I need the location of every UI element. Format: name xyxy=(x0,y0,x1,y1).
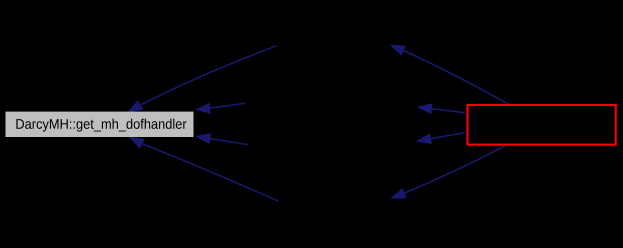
edge C: lower-middle caller -> DarcyMH::get_mh_dofhandler xyxy=(197,134,248,145)
edge A: top caller -> DarcyMH::get_mh_dofhandler xyxy=(129,46,277,112)
edge E: red truncated node -> top caller xyxy=(391,45,509,104)
edge B: upper-middle caller -> DarcyMH::get_mh_dofhandler xyxy=(196,103,245,113)
edge D: bottom caller -> DarcyMH::get_mh_dofhandler xyxy=(130,137,279,201)
edge G: red truncated node -> lower-middle caller xyxy=(417,133,465,144)
edge F: red truncated node -> upper-middle caller xyxy=(418,104,465,114)
node: truncated caller (red outline, label hidden) xyxy=(468,105,616,145)
node: DarcyMH::get_mh_dofhandler (current node, grey) xyxy=(6,112,194,137)
edge H: red truncated node -> bottom caller xyxy=(392,146,506,198)
